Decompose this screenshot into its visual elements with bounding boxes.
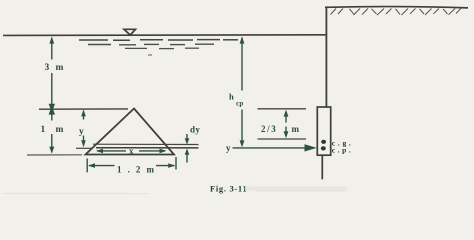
gate top level line (right) <box>258 108 307 110</box>
svg-text:y: y <box>226 143 231 153</box>
label h_cp <box>229 92 244 108</box>
svg-text:h: h <box>229 92 234 102</box>
retaining wall upper segment <box>325 6 327 107</box>
label y (pointer) <box>226 143 231 153</box>
label 1 m <box>41 125 64 135</box>
svg-text:2/3: 2/3 <box>261 124 277 134</box>
caption Fig. 3-11 <box>210 183 247 193</box>
apex level line (left) <box>39 108 128 110</box>
dimension 2/3 m lines <box>285 116 287 132</box>
svg-text:1 . 2 m: 1 . 2 m <box>117 165 155 175</box>
dimension dy arrows <box>185 138 190 155</box>
svg-text:x: x <box>129 146 134 156</box>
dimension 1.2 m extension ticks <box>87 157 176 172</box>
dimension 1 m line <box>51 114 53 148</box>
dimension y arrows <box>81 109 86 147</box>
svg-text:3: 3 <box>45 63 50 73</box>
label 2/3 m <box>261 124 300 134</box>
dimension x arrows <box>96 149 167 154</box>
pointer y to c.p. line <box>233 147 307 149</box>
svg-text:Fig. 3-11: Fig. 3-11 <box>210 183 247 193</box>
svg-text:m: m <box>56 63 64 73</box>
dimension 3 m line <box>51 38 53 105</box>
dimension h_cp arrows <box>240 37 245 148</box>
strip left tick <box>76 147 92 149</box>
label dy <box>190 125 200 135</box>
scan smudge bottom middle <box>243 187 348 191</box>
dimension 1 m arrows <box>49 106 55 154</box>
svg-text:cp: cp <box>236 100 244 108</box>
label 3 m <box>45 63 64 73</box>
strip top line <box>93 143 199 145</box>
svg-text:c.p.: c.p. <box>332 145 351 154</box>
water shading dashes row 3 <box>125 47 199 49</box>
dimension 2/3 m arrows <box>284 110 289 139</box>
c.p. dot <box>321 146 326 150</box>
water surface line <box>3 34 327 37</box>
strip bottom line <box>96 147 199 149</box>
label y <box>79 127 84 137</box>
dimension h_cp line <box>241 38 243 142</box>
gate rectangle on wall <box>317 107 330 155</box>
dimension y line <box>83 113 85 142</box>
svg-text:m: m <box>56 125 64 135</box>
water shading dashes row 2 <box>88 43 214 46</box>
label c.p. <box>332 145 351 154</box>
ground surface line <box>325 7 468 8</box>
dimension 3 m arrows <box>49 37 55 113</box>
dimension 1.2 m line <box>89 165 175 167</box>
ground hatching <box>331 8 462 15</box>
c.g. level line (right) <box>258 138 307 140</box>
svg-text:1: 1 <box>41 125 46 135</box>
base level line (left) <box>27 154 82 156</box>
label 1.2 m <box>117 165 155 175</box>
water surface symbol (nabla) <box>124 29 136 35</box>
c.g. dot <box>321 140 326 144</box>
label c.g. <box>332 138 351 147</box>
svg-text:m: m <box>292 124 300 134</box>
label x <box>129 146 134 156</box>
svg-text:y: y <box>79 127 84 137</box>
retaining wall lower segment <box>321 155 323 179</box>
dimension x line <box>97 150 165 152</box>
dimension 1.2 m arrows <box>88 163 175 168</box>
dimension dy lines <box>186 134 188 163</box>
scan smudge bottom left <box>2 192 150 194</box>
water shading dashes row 1 <box>79 39 238 42</box>
water speck <box>148 54 152 56</box>
triangle gate (elevation view) <box>86 109 175 155</box>
pointer y arrowhead <box>305 144 317 151</box>
svg-text:dy: dy <box>190 125 200 135</box>
